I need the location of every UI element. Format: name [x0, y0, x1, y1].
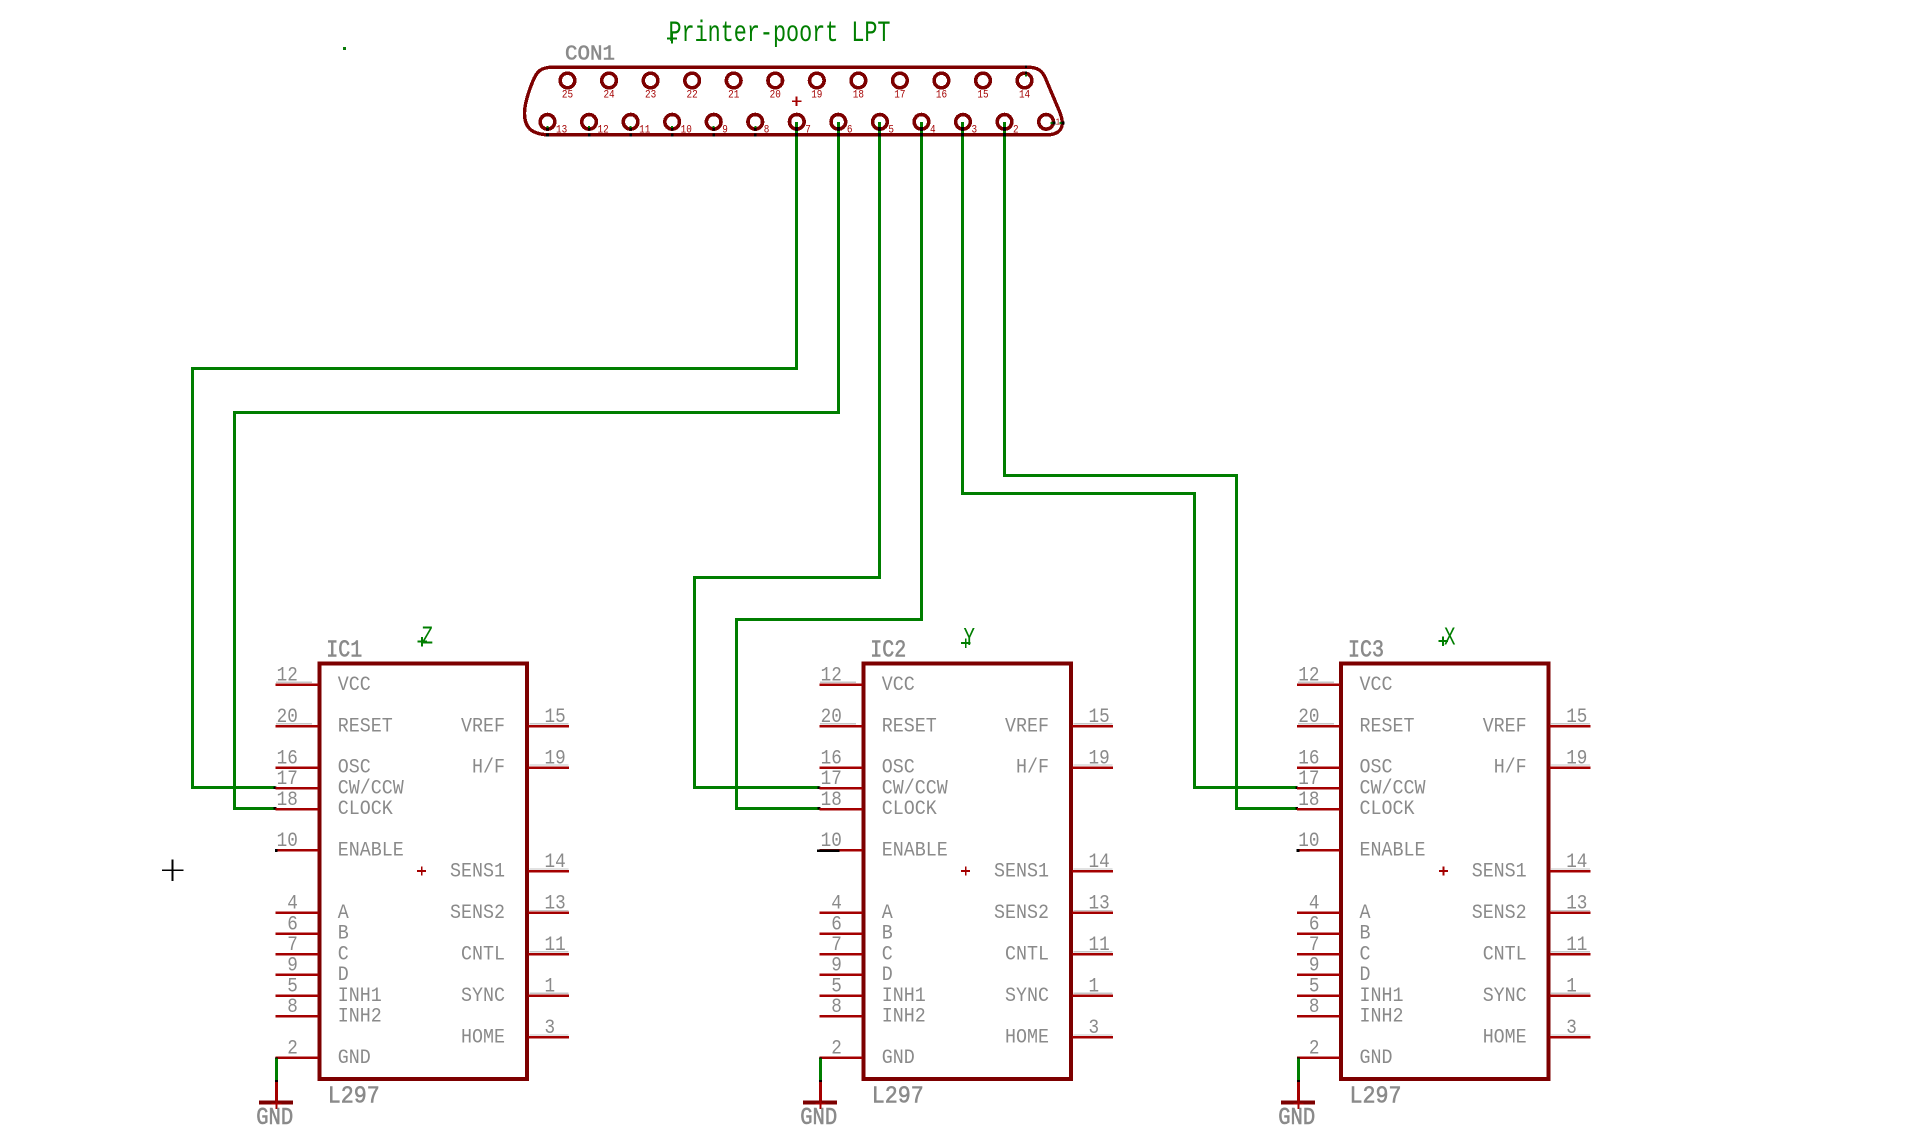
svg-text:X: X	[1444, 624, 1456, 653]
IC1 pin 4 A	[275, 893, 349, 925]
IC3 pin 17 CW/CCW	[1297, 768, 1426, 800]
CON1 pin 15	[976, 73, 991, 101]
wire segment: horizontal run at y=493.5	[961, 492, 1196, 495]
IC IC1 (L297 stepper controller)	[256, 622, 569, 1132]
svg-text:HOME: HOME	[1483, 1027, 1527, 1050]
svg-text:18: 18	[277, 789, 298, 812]
svg-text:15: 15	[1089, 706, 1110, 729]
svg-text:10: 10	[821, 830, 842, 853]
svg-text:SYNC: SYNC	[1005, 985, 1049, 1008]
svg-text:4: 4	[930, 125, 936, 137]
svg-text:11: 11	[639, 125, 650, 137]
IC2 pin 16 OSC	[819, 747, 915, 779]
svg-text:INH1: INH1	[1360, 985, 1404, 1008]
svg-text:25: 25	[562, 90, 573, 102]
svg-text:21: 21	[728, 90, 739, 102]
wire segment: drop from pin 6	[837, 122, 840, 414]
svg-text:8: 8	[764, 125, 770, 137]
svg-text:IC2: IC2	[870, 638, 906, 665]
IC1 body	[319, 663, 527, 1079]
svg-text:16: 16	[936, 90, 947, 102]
IC3 pin 19 H/F	[1494, 747, 1591, 779]
wire segment: into IC1 CW/CCW pin	[191, 786, 275, 789]
svg-text:CNTL: CNTL	[1005, 943, 1049, 966]
IC3 pin 11 CNTL	[1483, 934, 1591, 966]
CON1 pin 16	[934, 73, 949, 101]
svg-text:12: 12	[1298, 664, 1319, 687]
IC1 pin 7 C	[275, 934, 349, 966]
svg-text:19: 19	[811, 90, 822, 102]
wire segment: into IC2 CW/CCW pin	[693, 786, 819, 789]
svg-text:CW/CCW: CW/CCW	[882, 778, 948, 801]
svg-text:4: 4	[287, 893, 298, 916]
svg-text:2: 2	[1013, 125, 1019, 137]
svg-text:4: 4	[831, 893, 842, 916]
IC2 pin 14 SENS1	[994, 851, 1113, 883]
IC1 pin 10 ENABLE	[275, 830, 404, 862]
svg-text:9: 9	[1309, 955, 1320, 978]
svg-text:17: 17	[821, 768, 842, 791]
svg-text:10: 10	[681, 125, 692, 137]
svg-text:GND: GND	[338, 1047, 371, 1070]
IC1 pin 9 D	[275, 955, 349, 987]
pin connection point marks	[630, 126, 632, 128]
svg-text:4: 4	[1309, 893, 1320, 916]
svg-text:3: 3	[1089, 1017, 1100, 1040]
svg-text:C: C	[338, 943, 349, 966]
svg-text:17: 17	[1298, 768, 1319, 791]
svg-text:14: 14	[1019, 90, 1030, 102]
svg-text:19: 19	[1089, 747, 1110, 770]
svg-text:OSC: OSC	[338, 757, 371, 780]
wire segment: horizontal run at y=368.5	[191, 367, 798, 370]
svg-text:13: 13	[1566, 893, 1587, 916]
svg-text:7: 7	[1309, 934, 1320, 957]
IC2 pin 5 INH1	[819, 975, 926, 1007]
svg-text:SENS2: SENS2	[994, 902, 1049, 925]
svg-text:12: 12	[277, 664, 298, 687]
svg-text:CNTL: CNTL	[1483, 943, 1527, 966]
IC2 body	[863, 663, 1071, 1079]
svg-text:1: 1	[1566, 975, 1577, 998]
svg-text:CW/CCW: CW/CCW	[338, 778, 404, 801]
IC2 pin 13 SENS2	[994, 893, 1113, 925]
IC1 pin 6 B	[275, 913, 349, 945]
CON1 origin cross	[792, 100, 802, 102]
svg-text:6: 6	[1309, 913, 1320, 936]
svg-text:8: 8	[287, 996, 298, 1019]
ground symbol below IC2	[800, 1082, 837, 1132]
IC1 pin 8 INH2	[275, 996, 382, 1028]
IC2 pin 19 H/F	[1016, 747, 1113, 779]
wire segment: IC3 GND pin down	[1297, 1057, 1300, 1060]
svg-text:8: 8	[1309, 996, 1320, 1019]
wire segment: into IC1 CLOCK pin	[233, 807, 275, 810]
wire segment: into IC3 CLOCK pin	[1235, 807, 1297, 810]
svg-text:SENS1: SENS1	[994, 861, 1049, 884]
IC3 pin 7 C	[1297, 934, 1371, 966]
svg-text:12: 12	[598, 125, 609, 137]
IC3 pin 4 A	[1297, 893, 1371, 925]
svg-text:3: 3	[1566, 1017, 1577, 1040]
svg-text:D: D	[1360, 964, 1371, 987]
svg-text:12: 12	[821, 664, 842, 687]
svg-text:16: 16	[821, 747, 842, 770]
IC3 pin 12 VCC	[1297, 664, 1393, 696]
IC2 pin 15 VREF	[1005, 706, 1113, 738]
svg-text:14: 14	[545, 851, 566, 874]
svg-text:11: 11	[1089, 934, 1110, 957]
net from CON1 pin 4 to IC2 CLOCK	[735, 122, 923, 810]
junction at IC1 CW/CCW pin	[274, 786, 277, 789]
svg-text:GND: GND	[800, 1105, 837, 1132]
IC IC2 (L297 stepper controller)	[800, 624, 1113, 1132]
net from CON1 pin 5 to IC2 CW/CCW	[693, 122, 881, 789]
svg-text:IC1: IC1	[326, 638, 362, 665]
svg-text:6: 6	[287, 913, 298, 936]
IC1 pin 16 OSC	[275, 747, 371, 779]
IC2 value origin cross	[961, 642, 971, 644]
IC3 pin 5 INH1	[1297, 975, 1404, 1007]
svg-text:H/F: H/F	[1494, 757, 1527, 780]
svg-text:INH2: INH2	[882, 1006, 926, 1029]
CON1 pin 19	[810, 73, 825, 101]
IC2 pin 2 GND	[819, 1038, 915, 1070]
IC3 origin cross (SENS area)	[1439, 870, 1448, 872]
svg-text:GND: GND	[256, 1105, 293, 1132]
wire segment: into IC2 CLOCK pin	[735, 807, 819, 810]
CON1 pin 21	[726, 73, 741, 101]
wire segment: IC1 GND pin down	[275, 1057, 278, 1060]
svg-text:11: 11	[1566, 934, 1587, 957]
CON1 pin 25	[560, 73, 575, 101]
svg-text:7: 7	[805, 125, 811, 137]
svg-text:H/F: H/F	[472, 757, 505, 780]
CON1 pin 18	[851, 73, 866, 101]
connector CON1 (DB25 printer port)	[525, 17, 1065, 137]
CON1 pin 2	[997, 115, 1018, 137]
wire segment: drop from pin 7	[795, 122, 798, 370]
CON1 pin 7	[790, 115, 811, 137]
net from CON1 pin 7 to IC1 CW/CCW	[191, 122, 798, 789]
CON1 pin 5	[873, 115, 895, 137]
wire segment: drop from pin 3	[961, 122, 964, 495]
wire segment: drop from pin 5	[878, 122, 881, 579]
svg-text:L297: L297	[328, 1084, 380, 1111]
svg-text:OSC: OSC	[882, 757, 915, 780]
IC1 origin cross (SENS area)	[417, 870, 426, 872]
CON1 pin 17	[893, 73, 908, 101]
IC1 pin 5 INH1	[275, 975, 382, 1007]
IC2 pin 20 RESET	[819, 706, 937, 738]
svg-text:5: 5	[287, 975, 298, 998]
IC2 pin 9 D	[819, 955, 893, 987]
svg-text:9: 9	[831, 955, 842, 978]
svg-text:2: 2	[1309, 1038, 1320, 1061]
IC3 pin 18 CLOCK	[1297, 789, 1415, 821]
svg-text:SENS1: SENS1	[450, 861, 505, 884]
svg-text:D: D	[338, 964, 349, 987]
svg-text:VREF: VREF	[1005, 715, 1049, 738]
CON1 pin 6	[831, 115, 853, 137]
svg-text:1: 1	[1089, 975, 1100, 998]
wire segment: horizontal run at y=577.5	[693, 576, 881, 579]
junction at IC3 CW/CCW pin	[1295, 786, 1298, 789]
CON1 pin 14	[1017, 73, 1032, 101]
pin connection point marks	[713, 126, 715, 128]
svg-text:CLOCK: CLOCK	[338, 798, 393, 821]
CON1 pin 23	[643, 73, 658, 101]
svg-text:SENS2: SENS2	[1472, 902, 1527, 925]
svg-text:SENS2: SENS2	[450, 902, 505, 925]
svg-text:8: 8	[831, 996, 842, 1019]
svg-text:A: A	[1360, 902, 1371, 925]
svg-text:ENABLE: ENABLE	[882, 840, 948, 863]
wire segment: vertical run at x=192.5	[191, 367, 194, 789]
CON1 pin 1	[1039, 115, 1065, 130]
ground symbol below IC3	[1278, 1082, 1315, 1132]
svg-text:5: 5	[1309, 975, 1320, 998]
CON1 anchor dots near pin 14	[1025, 66, 1027, 68]
IC1 pin 3 HOME	[461, 1017, 569, 1049]
svg-text:HOME: HOME	[1005, 1027, 1049, 1050]
svg-text:CON1: CON1	[565, 43, 615, 67]
CON1 pin 4	[914, 115, 936, 137]
svg-text:Printer-poort LPT: Printer-poort LPT	[669, 17, 891, 51]
IC3 pin 16 OSC	[1297, 747, 1393, 779]
svg-text:14: 14	[1566, 851, 1587, 874]
wire segment: drop from pin 2	[1003, 122, 1006, 477]
svg-text:18: 18	[1298, 789, 1319, 812]
IC2 pin 6 B	[819, 913, 893, 945]
IC3 body	[1341, 663, 1549, 1079]
svg-text:1: 1	[545, 975, 556, 998]
svg-text:CLOCK: CLOCK	[1360, 798, 1415, 821]
svg-text:2: 2	[831, 1038, 842, 1061]
svg-text:16: 16	[1298, 747, 1319, 770]
svg-text:15: 15	[1566, 706, 1587, 729]
svg-text:24: 24	[603, 90, 614, 102]
IC3 pin 15 VREF	[1483, 706, 1591, 738]
svg-text:SYNC: SYNC	[1483, 985, 1527, 1008]
IC1 pin 14 SENS1	[450, 851, 569, 883]
svg-text:15: 15	[545, 706, 566, 729]
svg-text:INH2: INH2	[1360, 1006, 1404, 1029]
IC1 pin 12 VCC	[275, 664, 371, 696]
wire segment: vertical run at x=736.5	[735, 618, 738, 810]
IC2 pin 11 CNTL	[1005, 934, 1113, 966]
svg-text:5: 5	[831, 975, 842, 998]
IC3 pin 10 ENABLE	[1297, 830, 1426, 862]
svg-text:3: 3	[545, 1017, 556, 1040]
svg-text:2: 2	[287, 1038, 298, 1061]
CON1 outline	[525, 67, 1063, 135]
pin connection point marks	[588, 126, 590, 128]
wire segment: drop from pin 4	[920, 122, 923, 621]
net from CON1 pin 3 to IC3 CW/CCW	[961, 122, 1298, 789]
svg-text:GND: GND	[882, 1047, 915, 1070]
junction at IC1 CLOCK pin	[274, 807, 277, 810]
IC1 pin 2 GND	[275, 1038, 371, 1070]
svg-text:Z: Z	[422, 622, 434, 651]
IC2 pin 12 VCC	[819, 664, 915, 696]
svg-text:7: 7	[287, 934, 298, 957]
svg-text:6: 6	[831, 913, 842, 936]
junction at IC2 CW/CCW pin	[818, 786, 821, 789]
wire segment: IC2 GND pin down	[819, 1057, 822, 1060]
svg-text:RESET: RESET	[1360, 715, 1415, 738]
IC3 pin 13 SENS2	[1472, 893, 1591, 925]
svg-text:H/F: H/F	[1016, 757, 1049, 780]
svg-text:10: 10	[1298, 830, 1319, 853]
IC3 pin 9 D	[1297, 955, 1371, 987]
svg-text:VCC: VCC	[1360, 674, 1393, 697]
svg-text:VREF: VREF	[1483, 715, 1527, 738]
svg-text:13: 13	[545, 893, 566, 916]
svg-text:INH1: INH1	[882, 985, 926, 1008]
svg-text:D: D	[882, 964, 893, 987]
wire segment: into IC3 CW/CCW pin	[1193, 786, 1297, 789]
IC3 pin 2 GND	[1297, 1038, 1393, 1070]
IC2 pin 10 ENABLE	[817, 830, 948, 862]
IC3 value origin cross	[1438, 640, 1448, 642]
svg-text:18: 18	[821, 789, 842, 812]
net from CON1 pin 6 to IC1 CLOCK	[233, 122, 840, 810]
IC3 pin 14 SENS1	[1472, 851, 1591, 883]
IC2 origin cross (SENS area)	[961, 870, 970, 872]
CON1 pin 11	[623, 115, 650, 137]
svg-text:L297: L297	[1350, 1084, 1402, 1111]
IC1 pin 17 CW/CCW	[275, 768, 404, 800]
svg-text:9: 9	[722, 125, 728, 137]
svg-text:ENABLE: ENABLE	[338, 840, 404, 863]
IC3 pin 8 INH2	[1297, 996, 1404, 1028]
wire segment: horizontal run at y=412.5	[233, 411, 840, 414]
CON1 pin 12	[582, 115, 609, 137]
svg-text:20: 20	[277, 706, 298, 729]
svg-text:VCC: VCC	[882, 674, 915, 697]
IC1 pin 13 SENS2	[450, 893, 569, 925]
IC1 pin 1 SYNC	[461, 975, 569, 1007]
svg-text:15: 15	[977, 90, 988, 102]
wire segment: horizontal run at y=475.5	[1003, 474, 1238, 477]
net from CON1 pin 2 to IC3 CLOCK	[1003, 122, 1298, 810]
IC2 pin 8 INH2	[819, 996, 926, 1028]
IC1 pin 11 CNTL	[461, 934, 569, 966]
svg-text:HOME: HOME	[461, 1027, 505, 1050]
svg-text:9: 9	[287, 955, 298, 978]
svg-text:INH2: INH2	[338, 1006, 382, 1029]
CON1 pin 9	[706, 115, 727, 137]
IC3 pin 6 B	[1297, 913, 1371, 945]
IC1 pin 20 RESET	[275, 706, 393, 738]
IC1 pin 15 VREF	[461, 706, 569, 738]
wire segment: vertical run at x=1236.5	[1235, 474, 1238, 810]
svg-text:7: 7	[831, 934, 842, 957]
CON1 pin 10	[665, 115, 692, 137]
pin connection point marks	[754, 126, 756, 128]
IC2 pin 3 HOME	[1005, 1017, 1113, 1049]
stray green dot top-left	[343, 47, 346, 50]
wire segment: vertical run at x=1194.5	[1193, 492, 1196, 789]
svg-text:16: 16	[277, 747, 298, 770]
IC1 pin 19 H/F	[472, 747, 569, 779]
svg-text:23: 23	[645, 90, 656, 102]
svg-text:VREF: VREF	[461, 715, 505, 738]
IC2 pin 18 CLOCK	[819, 789, 937, 821]
svg-text:19: 19	[545, 747, 566, 770]
CON1 pin 13	[540, 115, 567, 137]
CON1 pin 20	[768, 73, 783, 101]
svg-text:17: 17	[277, 768, 298, 791]
CON1 pin 8	[748, 115, 770, 137]
svg-text:RESET: RESET	[338, 715, 393, 738]
IC2 pin 17 CW/CCW	[819, 768, 948, 800]
svg-text:13: 13	[556, 125, 567, 137]
svg-text:CNTL: CNTL	[461, 943, 505, 966]
IC3 pin 1 SYNC	[1483, 975, 1591, 1007]
svg-text:A: A	[338, 902, 349, 925]
svg-text:L297: L297	[872, 1084, 924, 1111]
svg-text:RESET: RESET	[882, 715, 937, 738]
pin connection point marks	[671, 126, 673, 128]
svg-text:GND: GND	[1278, 1105, 1315, 1132]
CON1 pin 22	[685, 73, 700, 101]
wire segment: horizontal run at y=619.5	[735, 618, 923, 621]
svg-text:CLOCK: CLOCK	[882, 798, 937, 821]
pin 1 connection point marks	[1050, 122, 1052, 124]
svg-text:C: C	[1360, 943, 1371, 966]
wire segment: vertical run at x=234.5	[233, 411, 236, 810]
svg-text:B: B	[882, 923, 893, 946]
svg-text:19: 19	[1566, 747, 1587, 770]
IC3 pin 3 HOME	[1483, 1017, 1591, 1049]
ground symbol below IC1	[256, 1082, 293, 1132]
IC2 pin 1 SYNC	[1005, 975, 1113, 1007]
IC IC3 (L297 stepper controller)	[1278, 624, 1591, 1133]
svg-text:14: 14	[1089, 851, 1110, 874]
svg-text:GND: GND	[1360, 1047, 1393, 1070]
CON1 pin 24	[602, 73, 617, 101]
svg-text:5: 5	[888, 125, 894, 137]
IC3 pin 20 RESET	[1297, 706, 1415, 738]
svg-text:INH1: INH1	[338, 985, 382, 1008]
IC1 pin 18 CLOCK	[275, 789, 393, 821]
IC2 pin 7 C	[819, 934, 893, 966]
svg-text:18: 18	[853, 90, 864, 102]
svg-text:10: 10	[277, 830, 298, 853]
svg-text:17: 17	[894, 90, 905, 102]
wire segment: vertical run at x=694.5	[693, 576, 696, 789]
IC2 pin 4 A	[819, 893, 893, 925]
CON1 pin 3	[956, 115, 978, 137]
svg-text:13: 13	[1089, 893, 1110, 916]
svg-text:CW/CCW: CW/CCW	[1360, 778, 1426, 801]
svg-text:C: C	[882, 943, 893, 966]
svg-text:11: 11	[545, 934, 566, 957]
svg-text:ENABLE: ENABLE	[1360, 840, 1426, 863]
svg-text:SYNC: SYNC	[461, 985, 505, 1008]
junction at IC3 CLOCK pin	[1295, 807, 1298, 810]
svg-text:20: 20	[770, 90, 781, 102]
svg-text:3: 3	[972, 125, 978, 137]
svg-text:6: 6	[847, 125, 853, 137]
junction at IC2 CLOCK pin	[818, 807, 821, 810]
svg-text:20: 20	[821, 706, 842, 729]
title origin cross	[667, 38, 677, 40]
svg-text:IC3: IC3	[1348, 638, 1384, 665]
svg-text:SENS1: SENS1	[1472, 861, 1527, 884]
